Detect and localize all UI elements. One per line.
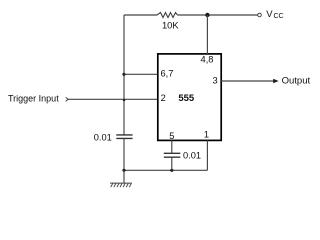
svg-text:5: 5 <box>169 131 174 141</box>
svg-text:0.01: 0.01 <box>94 133 112 143</box>
capacitor C1 0.01 plates <box>116 135 132 139</box>
wire: top rail right segment (resistor to Vcc terminal) <box>178 14 258 16</box>
junction dot ground rail left <box>122 169 125 172</box>
wire: C1 bottom to ground rail <box>123 138 125 170</box>
wire: bottom ground rail <box>124 169 207 171</box>
junction dot at trigger / left rail crossing <box>123 99 125 101</box>
wire: ground stub <box>123 170 125 183</box>
trigger input chevron arrowhead <box>66 97 69 101</box>
junction dot at left rail / pin 6,7 <box>122 73 125 76</box>
svg-text:4,8: 4,8 <box>201 54 214 64</box>
wire: pin 3 output <box>221 80 274 82</box>
svg-text:6,7: 6,7 <box>161 68 174 78</box>
terminal circle Vcc <box>258 13 262 17</box>
wire: left rail vertical (top rail down to capacitor C1) <box>123 15 125 135</box>
wire: pin 5 down to capacitor C2 <box>171 140 173 153</box>
svg-text:10K: 10K <box>162 20 179 31</box>
svg-text:Trigger Input: Trigger Input <box>8 93 59 103</box>
svg-text:555: 555 <box>178 93 195 104</box>
wire: C2 bottom to ground rail <box>171 157 173 170</box>
wire: pin 1 down to ground rail <box>206 140 208 170</box>
wire: pin 4,8 vertical from top rail <box>206 15 208 54</box>
svg-text:0.01: 0.01 <box>183 151 201 161</box>
wire: top rail left segment (Vcc rail to resistor) <box>124 14 157 16</box>
junction dot at top rail / pin 4,8 <box>205 13 209 17</box>
junction dot ground rail at C2 <box>170 169 173 172</box>
op-amp/timer IC U1 555 body <box>158 54 221 140</box>
resistor R1 10K zigzag <box>157 13 178 18</box>
ground symbol (hatched) <box>110 183 132 187</box>
svg-text:2: 2 <box>161 93 166 103</box>
wire: pin 6,7 horizontal <box>124 73 158 75</box>
svg-text:3: 3 <box>213 76 218 86</box>
capacitor C2 0.01 plates <box>164 153 181 157</box>
output arrowhead <box>273 79 278 83</box>
svg-text:Output: Output <box>282 76 311 87</box>
wire: trigger input to pin 2 <box>68 98 158 100</box>
svg-text:1: 1 <box>204 130 209 140</box>
